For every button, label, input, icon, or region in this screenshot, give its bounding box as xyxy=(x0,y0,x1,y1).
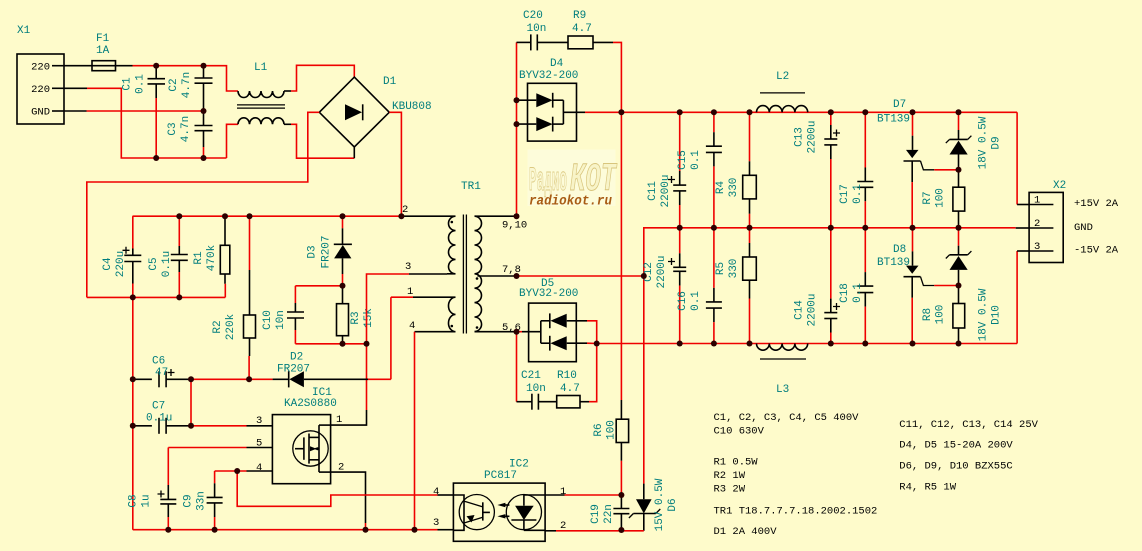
svg-text:2200u: 2200u xyxy=(660,174,672,207)
svg-text:4: 4 xyxy=(433,486,439,498)
svg-text:18V 0.5W: 18V 0.5W xyxy=(978,288,990,341)
wire L top rail xyxy=(133,66,239,91)
wire secondary 7,8 to GND mid rail xyxy=(517,275,644,277)
wire X1 GND pin xyxy=(64,110,87,112)
dual diode D4 BYV32-200 xyxy=(517,58,586,141)
svg-text:2: 2 xyxy=(338,462,344,474)
svg-text:D7: D7 xyxy=(893,99,906,111)
wire IC2 pin2 rail to C19/D6 xyxy=(545,530,556,532)
fuse F1 1A xyxy=(92,33,116,71)
snubber C20 10n xyxy=(517,10,569,50)
zener D10 18V 0.5W xyxy=(946,228,1003,342)
svg-text:C14: C14 xyxy=(794,300,806,320)
svg-text:D9: D9 xyxy=(991,136,1003,149)
wire GND to C2/C3 xyxy=(87,110,204,112)
svg-text:9,10: 9,10 xyxy=(502,220,527,232)
resistor R3 15k xyxy=(337,286,376,344)
svg-text:L1: L1 xyxy=(254,62,268,74)
wire bottom rail to X2 pin3 xyxy=(1016,251,1018,344)
capacitor C13 2200u xyxy=(794,112,841,228)
resistor R6 100 xyxy=(593,112,629,495)
svg-text:radiokot.ru: radiokot.ru xyxy=(529,194,613,210)
watermark xyxy=(528,150,618,210)
capacitor C14 2200u xyxy=(794,228,841,344)
wire top rail to X2 pin1 xyxy=(1016,112,1018,204)
svg-text:C3: C3 xyxy=(167,122,179,135)
svg-text:2: 2 xyxy=(1034,218,1040,230)
snubber R10 4.7 xyxy=(557,344,597,408)
svg-text:PC817: PC817 xyxy=(484,470,517,482)
svg-text:C8: C8 xyxy=(128,494,140,507)
svg-text:2200u: 2200u xyxy=(656,255,668,288)
svg-text:C18: C18 xyxy=(839,283,851,303)
svg-text:1A: 1A xyxy=(96,45,110,57)
connector X2 xyxy=(1029,180,1119,263)
wire D4 output to +rail xyxy=(585,111,621,113)
svg-text:FR207: FR207 xyxy=(321,235,333,268)
svg-text:0.1: 0.1 xyxy=(852,184,864,204)
svg-text:C5: C5 xyxy=(148,257,160,270)
svg-text:D6: D6 xyxy=(667,498,679,511)
svg-text:C19: C19 xyxy=(590,504,602,524)
diode D2 FR207 xyxy=(273,352,368,388)
wire +15 top rail xyxy=(621,111,1017,113)
svg-text:C1: C1 xyxy=(122,77,134,91)
svg-text:2200u: 2200u xyxy=(807,120,819,153)
resistor R4 330 xyxy=(715,112,756,228)
svg-text:4: 4 xyxy=(256,462,262,474)
capacitor C4 220u xyxy=(102,216,141,297)
wire C6 to D2 xyxy=(191,378,273,380)
svg-text:220: 220 xyxy=(31,84,50,96)
bridge rectifier D1 KBU808 xyxy=(319,76,431,147)
svg-text:C12: C12 xyxy=(643,262,655,282)
svg-text:R8: R8 xyxy=(922,308,934,321)
svg-text:0.1u: 0.1u xyxy=(146,413,172,425)
svg-text:C20: C20 xyxy=(523,10,543,22)
wire N to bottom rail xyxy=(87,88,227,158)
wire IC1 pin4 net xyxy=(215,470,247,472)
svg-text:L2: L2 xyxy=(776,71,789,83)
svg-text:D1: D1 xyxy=(383,76,397,88)
svg-text:330: 330 xyxy=(728,178,740,198)
wire DC- rail under C4/C5 xyxy=(87,296,226,298)
wire TR1 pin4 lead and riser xyxy=(415,331,448,333)
svg-text:C17: C17 xyxy=(839,184,851,204)
svg-text:R1: R1 xyxy=(193,251,205,265)
svg-text:GND: GND xyxy=(31,107,50,119)
wire bridge plus (right vertex) to DC+ rail xyxy=(389,112,401,216)
capacitor C12 2200u xyxy=(643,228,686,344)
diode D3 FR207 xyxy=(307,216,352,286)
svg-text:330: 330 xyxy=(728,259,740,279)
inductor L1 (common-mode choke) xyxy=(237,62,291,124)
wire TR1 pin3 lead xyxy=(409,273,447,275)
inductor L2 xyxy=(757,71,808,112)
svg-text:R10: R10 xyxy=(557,370,577,382)
wire D2 anode to TR1 pin1 riser xyxy=(368,378,391,380)
svg-text:0.1: 0.1 xyxy=(135,74,147,94)
svg-text:IC2: IC2 xyxy=(509,459,529,471)
notes text xyxy=(714,412,1039,538)
svg-text:D6, D9, D10 BZX55C: D6, D9, D10 BZX55C xyxy=(899,461,1012,473)
capacitor C19 22n xyxy=(590,495,629,530)
wire clamp top rail xyxy=(295,285,342,287)
resistor R5 330 xyxy=(715,228,756,344)
svg-text:15k: 15k xyxy=(363,308,375,328)
capacitor C11 2200u xyxy=(647,112,686,228)
svg-text:D1 2A 400V: D1 2A 400V xyxy=(714,526,778,538)
svg-text:10n: 10n xyxy=(275,310,287,330)
resistor R8 100 xyxy=(922,286,965,344)
svg-text:D2: D2 xyxy=(290,352,303,364)
svg-text:+15V 2A: +15V 2A xyxy=(1074,198,1119,210)
svg-text:L3: L3 xyxy=(776,384,789,396)
wire TR1 pin1 to D2/IC1 riser xyxy=(413,296,447,298)
wire L1 top to bridge top xyxy=(291,65,354,91)
zener D6 15V 0.5W xyxy=(629,478,679,531)
wire -15 bottom rail xyxy=(597,343,1017,345)
svg-text:100: 100 xyxy=(606,420,618,440)
wire N rail up to L1 bottom winding xyxy=(227,124,239,158)
capacitor C17 0.1 xyxy=(839,112,873,228)
capacitor C16 0.1 xyxy=(677,228,722,344)
svg-text:R7: R7 xyxy=(922,191,934,204)
snubber C21 10n xyxy=(517,332,557,410)
svg-text:C9: C9 xyxy=(183,494,195,507)
svg-text:KBU808: KBU808 xyxy=(392,101,432,113)
svg-text:FR207: FR207 xyxy=(277,364,310,376)
resistor R2 220k xyxy=(212,216,256,379)
capacitor C3 4.7n xyxy=(167,111,213,158)
capacitor C8 1u xyxy=(128,485,177,530)
svg-text:0.1u: 0.1u xyxy=(161,251,173,277)
svg-text:470k: 470k xyxy=(206,244,218,271)
capacitor C9 33n xyxy=(183,471,223,530)
svg-text:1u: 1u xyxy=(141,494,153,507)
wire IC1 pin1 riser (drain) xyxy=(366,344,368,410)
svg-text:1: 1 xyxy=(560,486,566,498)
svg-text:C10 630V: C10 630V xyxy=(714,426,765,438)
svg-text:0.1: 0.1 xyxy=(852,283,864,303)
wire DC- riser down left side xyxy=(132,297,134,529)
svg-text:R2: R2 xyxy=(212,320,224,333)
svg-text:D10: D10 xyxy=(991,305,1003,325)
svg-text:4.7: 4.7 xyxy=(560,383,580,395)
thyristor D8 BT139 xyxy=(877,228,934,344)
svg-text:C7: C7 xyxy=(152,401,165,413)
wire secondary 5,6 lead xyxy=(517,331,523,333)
wire IC1 pin5 to opto xyxy=(247,447,273,449)
svg-text:C13: C13 xyxy=(794,127,806,147)
capacitor C5 0.1u xyxy=(148,216,188,297)
capacitor C1 0.1 xyxy=(122,66,166,158)
svg-text:0.1: 0.1 xyxy=(690,291,702,311)
capacitor C10 10n xyxy=(262,286,304,344)
capacitor C18 0.1 xyxy=(839,228,873,344)
svg-text:C6: C6 xyxy=(152,356,165,368)
svg-text:R6: R6 xyxy=(593,423,605,436)
svg-text:KA2S0880: KA2S0880 xyxy=(284,398,337,410)
svg-text:4.7: 4.7 xyxy=(572,23,592,35)
svg-text:15V 0.5W: 15V 0.5W xyxy=(654,478,666,531)
svg-text:R3: R3 xyxy=(350,311,362,324)
svg-text:1: 1 xyxy=(336,414,342,426)
svg-text:R5: R5 xyxy=(715,262,727,275)
svg-text:3: 3 xyxy=(433,517,439,529)
svg-text:4: 4 xyxy=(409,320,415,332)
svg-text:3: 3 xyxy=(1034,241,1040,253)
svg-text:3: 3 xyxy=(405,261,411,273)
zener D9 18V 0.5W xyxy=(946,112,1003,170)
svg-text:5: 5 xyxy=(256,438,262,450)
capacitor C6 47 xyxy=(152,356,191,388)
svg-text:C11, C12, C13, C14 25V: C11, C12, C13, C14 25V xyxy=(899,419,1038,431)
svg-text:D4: D4 xyxy=(550,58,564,70)
svg-text:C10: C10 xyxy=(262,310,274,330)
svg-text:D4, D5 15-20A 200V: D4, D5 15-20A 200V xyxy=(899,440,1013,452)
svg-text:1: 1 xyxy=(1034,195,1040,207)
svg-text:TR1: TR1 xyxy=(461,181,481,193)
svg-text:BT139: BT139 xyxy=(877,257,910,269)
wire X1 pin1 to fuse xyxy=(64,65,92,67)
wire D7 gate to node xyxy=(934,169,958,171)
svg-text:TR1 T18.7.7.7.18.2002.1502: TR1 T18.7.7.7.18.2002.1502 xyxy=(714,506,878,518)
resistor R1 470k xyxy=(193,216,230,297)
svg-text:220: 220 xyxy=(31,62,50,74)
capacitor C7 0.1u xyxy=(146,401,191,434)
wire C7 node to IC1 pin3 xyxy=(191,425,247,427)
wire secondary 9,10 vertical to D4/C20 xyxy=(516,42,518,216)
svg-text:C4: C4 xyxy=(102,257,114,271)
wire D8 gate to node xyxy=(934,285,958,287)
svg-text:C15: C15 xyxy=(677,150,689,170)
wire L1 bottom to bridge bottom xyxy=(291,124,354,158)
svg-text:10n: 10n xyxy=(526,383,546,395)
svg-text:C2: C2 xyxy=(168,78,180,91)
transformer TR1 xyxy=(402,181,527,334)
svg-text:R4, R5 1W: R4, R5 1W xyxy=(899,482,956,494)
wire clamp bottom rail xyxy=(295,343,366,345)
svg-text:220u: 220u xyxy=(115,251,127,277)
wire TR1 pin3 riser xyxy=(367,274,410,344)
capacitor C15 0.1 xyxy=(677,112,722,228)
svg-text:47: 47 xyxy=(155,367,168,379)
svg-text:R9: R9 xyxy=(573,10,586,22)
svg-text:3: 3 xyxy=(256,415,262,427)
svg-text:C1, C2, C3, C4, C5 400V: C1, C2, C3, C4, C5 400V xyxy=(714,412,860,424)
wire C6 line from riser xyxy=(133,378,152,380)
svg-text:10n: 10n xyxy=(527,23,547,35)
svg-text:33n: 33n xyxy=(196,491,208,511)
svg-text:R2 1W: R2 1W xyxy=(714,470,746,482)
svg-text:100: 100 xyxy=(935,305,947,325)
connector X1 xyxy=(17,25,64,124)
wire DC+ top rail xyxy=(133,215,402,217)
svg-text:D3: D3 xyxy=(307,245,319,258)
svg-text:0.1: 0.1 xyxy=(690,150,702,170)
svg-text:X2: X2 xyxy=(1053,180,1066,192)
svg-text:22n: 22n xyxy=(603,504,615,524)
svg-text:C21: C21 xyxy=(521,370,541,382)
svg-text:C16: C16 xyxy=(677,291,689,311)
wire R9 to D4 output node xyxy=(613,42,621,112)
svg-text:R4: R4 xyxy=(715,181,727,195)
svg-text:-15V 2A: -15V 2A xyxy=(1074,245,1119,257)
svg-text:18V 0.5W: 18V 0.5W xyxy=(978,116,990,169)
wire IC2 pin1 to R6/C19 node xyxy=(545,494,564,496)
wire X1 pin2 xyxy=(64,87,87,89)
svg-text:GND: GND xyxy=(1074,222,1093,234)
svg-text:R3 2W: R3 2W xyxy=(714,484,746,496)
IC IC1 KA2S0880 xyxy=(256,387,344,484)
wire TR1 pin2 lead xyxy=(403,215,447,217)
optocoupler IC2 PC817 xyxy=(433,459,566,542)
svg-text:D8: D8 xyxy=(893,244,906,256)
svg-text:R1 0.5W: R1 0.5W xyxy=(714,457,759,469)
svg-text:BYV32-200: BYV32-200 xyxy=(519,288,578,300)
wire D5 outputs to -rail xyxy=(587,321,597,344)
thyristor D7 BT139 xyxy=(877,99,934,228)
capacitor C2 4.7n xyxy=(168,66,213,111)
svg-text:1: 1 xyxy=(407,286,413,298)
wire IC1 pin2 to ground rail xyxy=(331,472,366,523)
svg-text:BT139: BT139 xyxy=(877,114,910,126)
svg-text:2200u: 2200u xyxy=(807,293,819,326)
svg-text:4.7n: 4.7n xyxy=(180,116,192,142)
wire C7 line from riser xyxy=(133,425,152,427)
snubber R9 4.7 xyxy=(568,10,613,49)
wire primary ground bottom rail xyxy=(133,529,438,531)
svg-text:4.7n: 4.7n xyxy=(181,72,193,98)
wire fuse to C1 xyxy=(116,65,133,67)
wire C7/C6 junction riser xyxy=(190,379,192,426)
svg-text:X1: X1 xyxy=(17,25,31,37)
dual diode D5 BYV32-200 xyxy=(519,278,587,362)
wire bridge bottom vertex lead xyxy=(353,147,355,158)
svg-text:C11: C11 xyxy=(647,181,659,201)
svg-text:BYV32-200: BYV32-200 xyxy=(519,70,578,82)
wire mid-rail riser down to D6 xyxy=(643,276,645,484)
resistor R7 100 xyxy=(922,170,965,228)
svg-text:220k: 220k xyxy=(225,313,237,340)
inductor L3 xyxy=(757,344,808,397)
svg-text:F1: F1 xyxy=(96,33,110,45)
wire bridge minus (left vertex) to DC- rail xyxy=(87,112,319,297)
svg-text:100: 100 xyxy=(935,188,947,208)
